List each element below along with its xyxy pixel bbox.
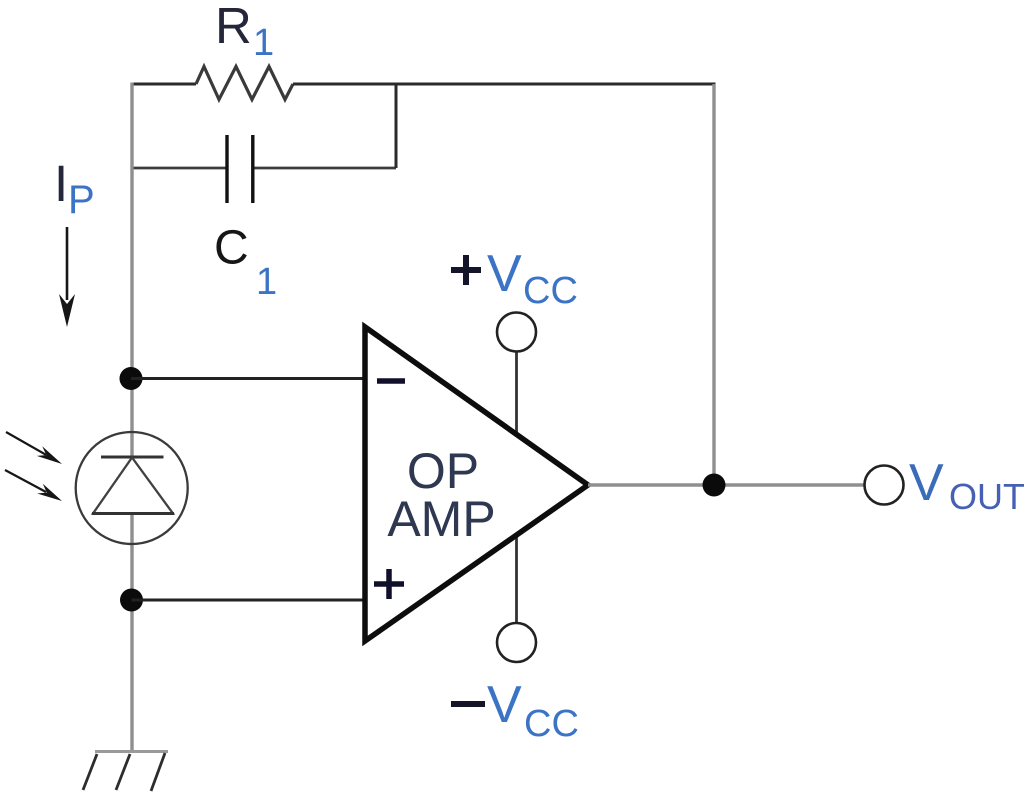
wire capacitor branch vertical up (395, 83, 398, 169)
svg-text:R: R (215, 0, 252, 54)
photodiode cathode bar (101, 456, 164, 459)
terminal -Vcc (497, 623, 536, 662)
photodiode anode bar (92, 512, 174, 515)
photodiode D1 circle (76, 432, 188, 544)
node output junction (703, 474, 726, 497)
op-amp U1 triangle (365, 327, 588, 641)
node non-inverting input junction (120, 589, 143, 612)
label +Vcc (451, 267, 481, 273)
svg-text:V: V (909, 454, 944, 512)
svg-text:I: I (54, 155, 68, 212)
svg-text:V: V (487, 245, 522, 303)
light arrow 2 (5, 470, 46, 492)
capacitor C1 (225, 135, 228, 203)
op-amp minus sign (377, 378, 405, 384)
ground (95, 750, 168, 753)
terminal +Vcc (497, 313, 536, 352)
svg-text:1: 1 (256, 261, 277, 303)
wire top feedback to right (293, 83, 716, 86)
resistor R1 (196, 67, 293, 100)
wire right feedback vertical (712, 84, 715, 485)
svg-text:C: C (214, 222, 249, 275)
svg-text:CC: CC (524, 703, 579, 745)
wire capacitor branch left (131, 167, 226, 170)
light arrow 1 (6, 432, 46, 455)
current arrow IP (66, 227, 69, 300)
wire top-left feedback segment (131, 83, 197, 86)
wire non-inverting input (132, 599, 371, 602)
op-amp plus sign (374, 581, 404, 587)
node inverting input junction (120, 367, 143, 390)
terminal Vout (865, 466, 904, 505)
wire left vertical (130, 83, 133, 753)
svg-text:V: V (487, 676, 522, 734)
svg-text:P: P (68, 178, 95, 222)
svg-text:CC: CC (523, 270, 578, 312)
wire -Vcc stem (515, 530, 518, 623)
wire +Vcc stem (515, 350, 518, 440)
svg-text:AMP: AMP (387, 491, 495, 547)
svg-text:1: 1 (253, 22, 274, 64)
svg-text:OUT: OUT (949, 476, 1024, 517)
label -Vcc (451, 701, 485, 707)
wire output (588, 483, 864, 486)
wire capacitor branch right (255, 167, 397, 170)
wire inverting input (131, 377, 370, 380)
photodiode triangle (93, 458, 173, 514)
